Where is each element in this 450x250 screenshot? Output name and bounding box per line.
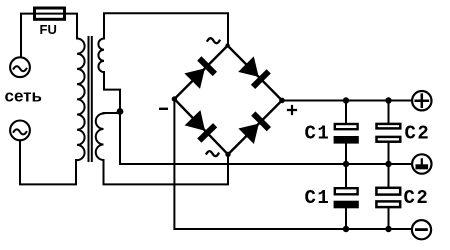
svg-text:C2: C2	[405, 123, 431, 145]
tilde of AC source 1	[14, 66, 27, 71]
AC source circle 1	[10, 57, 30, 77]
transformer core	[88, 37, 90, 161]
tilde of AC source 2	[14, 129, 27, 134]
junction: bridge left vertex	[172, 96, 177, 101]
label plus at bridge	[288, 106, 296, 114]
capacitor C2 lower	[388, 164, 390, 229]
diode VD3 (left to bottom edge)	[185, 110, 218, 143]
wire: secondary top lead, top rail to bridge	[104, 13, 228, 45]
junction: top rail C1	[343, 97, 349, 103]
wire: negative rail from bridge left vertex	[174, 99, 410, 229]
label ~ bottom AC input	[207, 151, 219, 156]
transformer secondary winding top half	[98, 39, 104, 73]
label minus at bridge	[159, 108, 168, 110]
diode VD4 (bottom to right edge)	[238, 111, 271, 144]
junction: bridge top vertex	[225, 43, 229, 47]
fuse FU	[35, 8, 65, 19]
svg-text:C1: C1	[305, 123, 331, 145]
junction: bridge right vertex	[279, 98, 285, 104]
diode VD1 (left to top edge)	[184, 56, 217, 89]
wire: secondary bottom to bridge AC bottom	[104, 154, 229, 184]
junction: mid rail C1	[343, 161, 349, 167]
terminal common (earth)	[412, 154, 431, 173]
terminal minus	[412, 220, 431, 239]
svg-text:сеть: сеть	[5, 87, 42, 106]
junction: top rail C2	[385, 97, 391, 103]
svg-text:C1: C1	[305, 187, 331, 209]
wire: mains left vertical and top to fuse	[21, 14, 77, 57]
wire: secondary top half to center tap	[104, 72, 120, 111]
svg-text:C2: C2	[404, 187, 430, 209]
svg-text:FU: FU	[40, 22, 57, 37]
wire: center tap to common rail	[120, 112, 411, 165]
transformer primary winding	[77, 39, 85, 161]
junction: bottom rail C1	[343, 226, 349, 232]
wire: center tap branch to bottom half	[104, 112, 121, 114]
capacitor C1 lower	[345, 164, 347, 229]
junction: bottom rail C2	[385, 226, 391, 232]
junction: bridge bottom vertex	[225, 152, 230, 157]
AC source circle 2	[10, 120, 30, 140]
terminal plus	[412, 91, 431, 110]
junction: center tap	[117, 108, 124, 115]
transformer secondary winding bottom half	[96, 114, 104, 161]
diode bridge edges	[174, 46, 282, 155]
wire: positive rail	[282, 100, 411, 102]
wire: AC source 2 to primary bottom	[20, 141, 76, 185]
diode VD2 (top to right edge)	[238, 56, 271, 89]
capacitor C2 upper	[388, 101, 390, 165]
junction: mid rail C2	[385, 161, 391, 167]
capacitor C1 upper	[345, 101, 347, 165]
label ~ top AC input	[208, 38, 220, 43]
